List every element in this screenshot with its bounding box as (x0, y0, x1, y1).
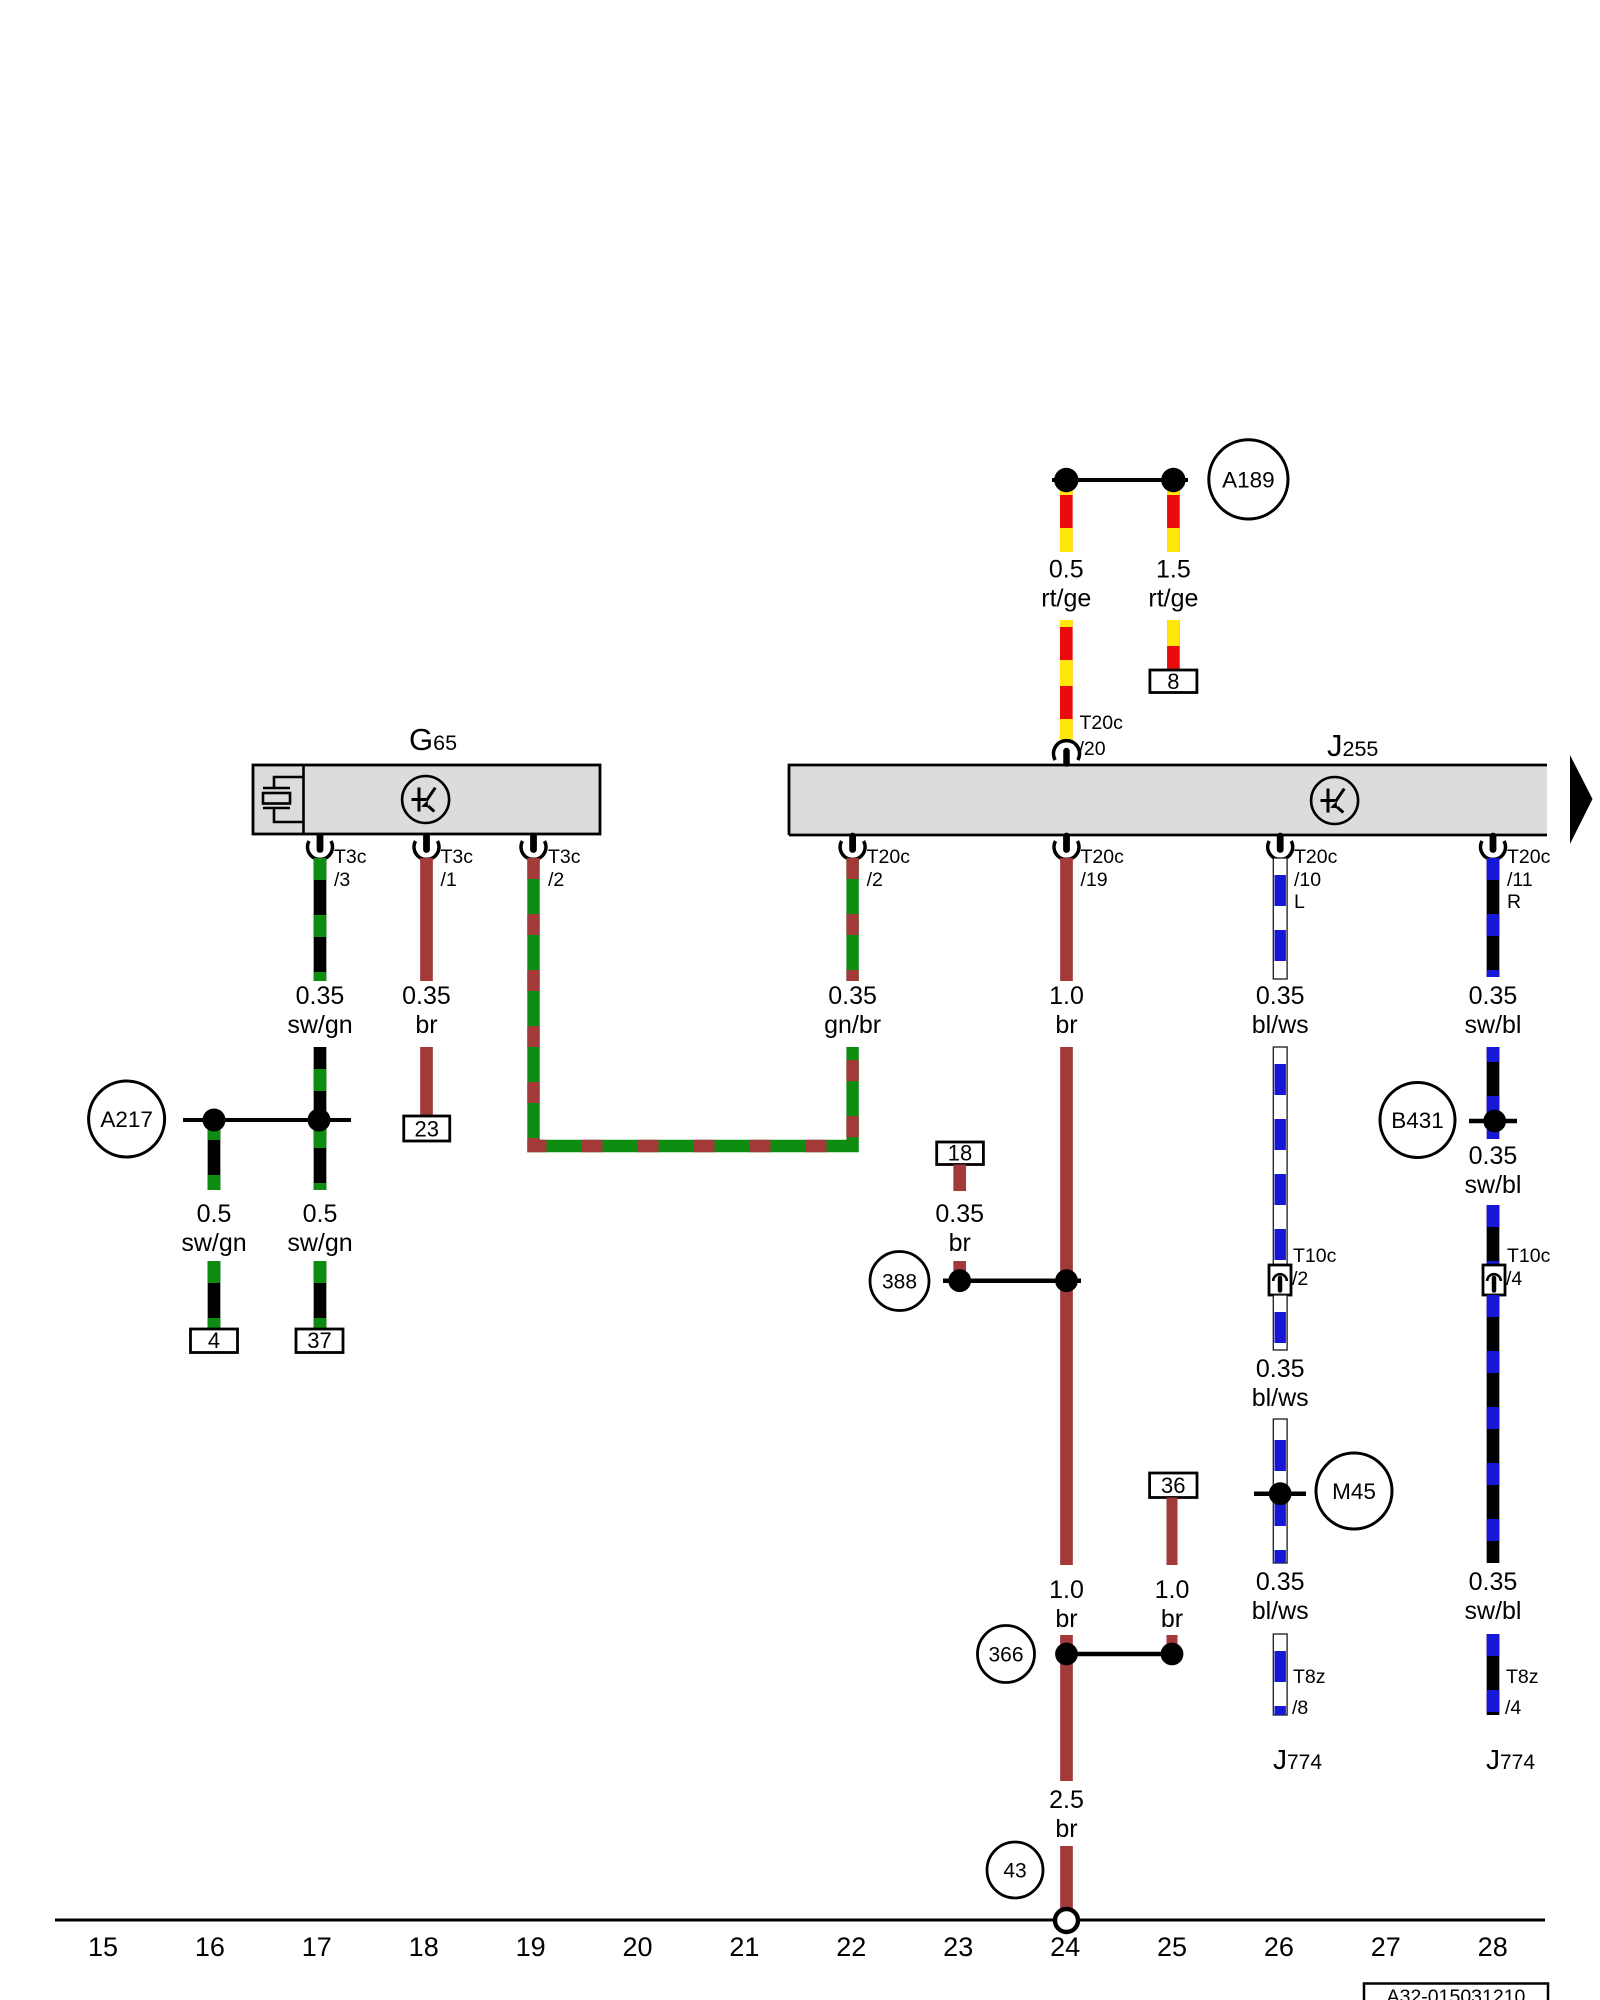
svg-text:23: 23 (943, 1932, 973, 1962)
svg-text:M45: M45 (1332, 1479, 1376, 1504)
label 0.5 sw/gn (left branch) (181, 1200, 246, 1257)
G65 label (409, 722, 457, 757)
svg-text:T20c: T20c (1080, 712, 1124, 734)
svg-text:sw/bl: sw/bl (1465, 1011, 1522, 1039)
wire rt/ge 0.5 lower segment (1060, 620, 1073, 741)
wire br main column long segment (1060, 1047, 1073, 1565)
svg-text:0.35: 0.35 (1256, 1355, 1305, 1383)
label 0.35 sw/bl (1465, 1142, 1522, 1199)
svg-text:bl/ws: bl/ws (1252, 1384, 1309, 1412)
wire sw/bl 0.35 segment 1 (1487, 858, 1500, 977)
svg-text:2.5: 2.5 (1049, 1786, 1084, 1814)
svg-text:br: br (415, 1011, 437, 1039)
wire bl/ws segment 5 (T8z/8) (1273, 1634, 1325, 1719)
connector icon inside G65 (263, 777, 304, 822)
svg-text:21: 21 (729, 1932, 759, 1962)
pin T20c/19 (1054, 836, 1124, 891)
wire gn/br U-shape (left vertical, bottom run, right vertical lower part) (534, 858, 853, 1146)
svg-text:0.35: 0.35 (1469, 1568, 1518, 1596)
wire bl/ws segment 3 (1273, 1295, 1287, 1350)
svg-text:B431: B431 (1391, 1108, 1444, 1133)
svg-text:/19: /19 (1081, 869, 1108, 891)
label 0.35 br (402, 982, 451, 1039)
label 0.5 rt/ge (1041, 556, 1091, 613)
svg-text:T20c: T20c (867, 846, 911, 868)
pin T20c/11 (1481, 836, 1551, 913)
wire br stub above 366 junction (1167, 1635, 1178, 1654)
diagram id box (1364, 1984, 1548, 2000)
svg-text:gn/br: gn/br (824, 1011, 881, 1039)
svg-text:19: 19 (516, 1932, 546, 1962)
svg-text:/4: /4 (1506, 1268, 1522, 1290)
node circle B431 (1380, 1083, 1455, 1158)
node link line A217 (183, 1118, 351, 1122)
terminal box 18 (937, 1141, 984, 1166)
svg-text:23: 23 (415, 1117, 439, 1142)
svg-text:T10c: T10c (1507, 1245, 1551, 1267)
terminal box 8 (1150, 669, 1197, 694)
svg-text:18: 18 (948, 1141, 972, 1166)
svg-text:sw/bl: sw/bl (1465, 1597, 1522, 1625)
node circle 43 (987, 1842, 1043, 1898)
svg-text:T20c: T20c (1507, 846, 1551, 868)
pin T20c/20 (top of J255) (1054, 712, 1124, 764)
node circle 388 (870, 1252, 929, 1311)
svg-text:/4: /4 (1505, 1697, 1521, 1719)
wire br 0.35 below box 18 (953, 1165, 966, 1192)
node circle M45 (1316, 1453, 1392, 1529)
wire sw/gn segment 2 (through A217 junction) (314, 1047, 327, 1190)
svg-text:27: 27 (1371, 1932, 1401, 1962)
svg-text:28: 28 (1478, 1932, 1508, 1962)
wire gn/br right vertical upper part (846, 858, 858, 981)
label 0.35 bl/ws (1252, 982, 1309, 1039)
svg-text:bl/ws: bl/ws (1252, 1011, 1309, 1039)
svg-text:A189: A189 (1222, 468, 1275, 493)
arrow continuation right of J255 (1570, 755, 1593, 844)
svg-text:sw/gn: sw/gn (287, 1011, 352, 1039)
pin T3c/3 (308, 836, 367, 891)
svg-text:br: br (1055, 1605, 1077, 1633)
svg-text:br: br (949, 1229, 971, 1257)
svg-text:T3c: T3c (334, 846, 367, 868)
svg-text:T8z: T8z (1506, 1666, 1539, 1688)
svg-text:388: 388 (882, 1271, 917, 1294)
wire br main column segment through 366 (1060, 1635, 1073, 1781)
label 1.5 rt/ge (1148, 556, 1198, 613)
svg-text:L: L (1294, 891, 1305, 913)
svg-text:sw/gn: sw/gn (181, 1229, 246, 1257)
svg-text:/8: /8 (1292, 1697, 1308, 1719)
J255 label (1327, 728, 1378, 763)
svg-text:0.35: 0.35 (1256, 982, 1305, 1010)
svg-text:8: 8 (1167, 669, 1179, 694)
svg-text:366: 366 (988, 1644, 1023, 1667)
junction dot M45 (1269, 1482, 1292, 1505)
svg-text:J255: J255 (1327, 728, 1378, 763)
svg-text:1.5: 1.5 (1156, 556, 1191, 584)
inline connector T10c/2 (1269, 1245, 1337, 1295)
svg-text:G65: G65 (409, 722, 457, 757)
terminal box 36 (1150, 1473, 1197, 1498)
node link line M45 (1254, 1491, 1306, 1496)
svg-text:0.35: 0.35 (828, 982, 877, 1010)
wire br 1.0 main column segment 1 (1060, 858, 1073, 981)
svg-text:16: 16 (195, 1932, 225, 1962)
svg-text:/10: /10 (1294, 869, 1321, 891)
junction dot right (1161, 468, 1185, 492)
wire rt/ge 0.5 upper segment (1060, 488, 1073, 552)
junction dot B431 (1483, 1110, 1506, 1133)
terminal box 37 (296, 1328, 343, 1353)
svg-text:T8z: T8z (1293, 1666, 1326, 1688)
svg-text:br: br (1055, 1815, 1077, 1843)
svg-text:18: 18 (409, 1932, 439, 1962)
wire bl/ws segment 2 (1273, 1047, 1287, 1265)
label 0.35 bl/ws (1252, 1355, 1309, 1412)
svg-text:0.35: 0.35 (935, 1200, 984, 1228)
label 1.0 br (box 36 column) (1155, 1576, 1190, 1633)
wire bl/ws segment 4 (through M45 junction) (1273, 1419, 1287, 1563)
svg-text:T3c: T3c (548, 846, 581, 868)
label 0.35 bl/ws (1252, 1568, 1309, 1625)
svg-text:J774: J774 (1486, 1744, 1535, 1775)
grid numbers (88, 1932, 1508, 1962)
wire bl/ws 0.35 segment 1 (1273, 858, 1287, 979)
svg-text:/2: /2 (1292, 1268, 1308, 1290)
svg-text:4: 4 (208, 1328, 220, 1353)
svg-text:0.5: 0.5 (303, 1200, 338, 1228)
wire sw/gn to box 4 (208, 1261, 221, 1328)
label 1.0 br (1049, 982, 1084, 1039)
svg-text:sw/bl: sw/bl (1465, 1171, 1522, 1199)
label 2.5 br (1049, 1786, 1084, 1843)
junction dot A217 left (203, 1109, 226, 1132)
inline connector T10c/4 (1483, 1245, 1551, 1295)
wire br stub above 388 junction (953, 1261, 966, 1272)
svg-text:0.35: 0.35 (402, 982, 451, 1010)
label 0.5 sw/gn (right branch) (287, 1200, 352, 1257)
node circle 366 (978, 1626, 1035, 1683)
label 0.35 sw/bl (1465, 982, 1522, 1039)
wire sw/gn 0.5 left branch upper (208, 1122, 221, 1190)
component box J255 (789, 765, 1547, 835)
svg-text:0.5: 0.5 (1049, 556, 1084, 584)
svg-text:/3: /3 (334, 869, 350, 891)
svg-text:A32-015031210: A32-015031210 (1387, 1986, 1526, 2000)
label 0.35 br (935, 1200, 984, 1257)
label 0.35 gn/br (824, 982, 881, 1039)
component box G65 (253, 765, 600, 834)
ground terminal circle 24 (1055, 1909, 1078, 1932)
svg-text:bl/ws: bl/ws (1252, 1597, 1309, 1625)
wire sw/bl segment 3 (1487, 1205, 1500, 1265)
label 0.35 sw/bl (1465, 1568, 1522, 1625)
pin T3c/1 (414, 836, 473, 891)
node link line 366 (1060, 1652, 1180, 1657)
svg-text:20: 20 (622, 1932, 652, 1962)
svg-text:0.35: 0.35 (1469, 1142, 1518, 1170)
svg-text:22: 22 (836, 1932, 866, 1962)
pin T3c/2 (521, 836, 581, 891)
junction dot 366 left (1055, 1643, 1078, 1666)
node link line A189 (1052, 478, 1188, 482)
svg-text:0.35: 0.35 (1469, 982, 1518, 1010)
svg-text:/2: /2 (548, 869, 564, 891)
sensor symbol in J255 (1311, 777, 1358, 824)
svg-text:1.0: 1.0 (1155, 1576, 1190, 1604)
svg-text:/20: /20 (1079, 738, 1106, 760)
svg-text:T10c: T10c (1293, 1245, 1337, 1267)
svg-text:25: 25 (1157, 1932, 1187, 1962)
svg-text:sw/gn: sw/gn (287, 1229, 352, 1257)
wire br segment 2 (420, 1047, 433, 1116)
wire sw/bl segment 4 (1487, 1295, 1500, 1563)
junction dot 366 right (1161, 1643, 1184, 1666)
svg-text:/11: /11 (1507, 869, 1533, 891)
wire br 0.35 segment 1 (420, 858, 433, 981)
svg-text:24: 24 (1050, 1932, 1080, 1962)
junction dot left (1054, 468, 1078, 492)
svg-text:T20c: T20c (1081, 846, 1125, 868)
svg-text:1.0: 1.0 (1049, 1576, 1084, 1604)
svg-text:/1: /1 (441, 869, 457, 891)
pin T20c/10 (1268, 836, 1338, 913)
svg-text:rt/ge: rt/ge (1041, 585, 1091, 613)
terminal box 23 (404, 1116, 450, 1142)
svg-text:R: R (1507, 891, 1521, 913)
label 1.0 br (main column above 366) (1049, 1576, 1084, 1633)
svg-text:J774: J774 (1273, 1744, 1322, 1775)
sensor symbol in G65 (402, 776, 449, 823)
node circle A217 (89, 1081, 165, 1157)
wire rt/ge 1.5 upper segment (1167, 488, 1180, 552)
svg-text:0.5: 0.5 (197, 1200, 232, 1228)
svg-text:/2: /2 (867, 869, 883, 891)
svg-text:37: 37 (307, 1328, 331, 1353)
junction dot A217 right (308, 1109, 331, 1132)
svg-text:1.0: 1.0 (1049, 982, 1084, 1010)
node link line B431 (1469, 1119, 1517, 1124)
svg-text:T3c: T3c (441, 846, 474, 868)
svg-text:36: 36 (1161, 1473, 1185, 1498)
svg-text:43: 43 (1003, 1860, 1026, 1883)
svg-text:A217: A217 (100, 1107, 153, 1132)
junction dot 388 right (on main br wire) (1055, 1269, 1078, 1292)
svg-text:rt/ge: rt/ge (1148, 585, 1198, 613)
terminal box 4 (191, 1328, 238, 1353)
ground baseline (55, 1919, 1545, 1922)
pin T20c/2 (840, 836, 910, 891)
svg-text:0.35: 0.35 (296, 982, 345, 1010)
junction dot 388 left (948, 1269, 971, 1292)
svg-text:br: br (1161, 1605, 1183, 1633)
wire rt/ge 1.5 lower segment (1167, 620, 1180, 670)
wire sw/bl segment 5 (T8z/4) (1493, 1634, 1539, 1719)
wire sw/bl segment 2 (through B431 junction) (1487, 1047, 1500, 1139)
svg-text:17: 17 (302, 1932, 332, 1962)
wire br 1.0 below box 36 (1167, 1498, 1178, 1566)
svg-text:15: 15 (88, 1932, 118, 1962)
node link line 388 (943, 1278, 1081, 1283)
wire br bottom segment to ground (1060, 1846, 1073, 1908)
wire sw/gn to box 37 (314, 1261, 327, 1328)
svg-text:0.35: 0.35 (1256, 1568, 1305, 1596)
node circle A189 (1209, 440, 1288, 519)
svg-text:br: br (1055, 1011, 1077, 1039)
svg-text:T20c: T20c (1294, 846, 1338, 868)
wire sw/gn 0.35 segment 1 (314, 858, 327, 981)
svg-text:26: 26 (1264, 1932, 1294, 1962)
label 0.35 sw/gn (287, 982, 352, 1039)
